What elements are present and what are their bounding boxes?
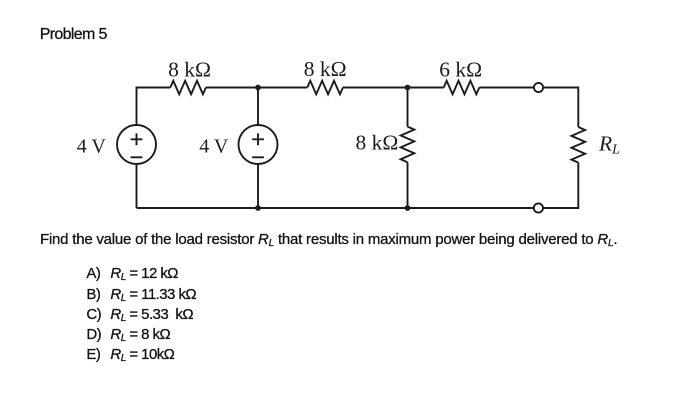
svg-text:8 kΩ: 8 kΩ — [304, 57, 347, 81]
terminal a open circle — [534, 83, 543, 92]
wire R2 to node B — [343, 87, 444, 89]
option B — [86, 286, 196, 303]
node A junction dot — [255, 85, 261, 91]
wire bottom rail — [137, 207, 534, 209]
option C — [86, 306, 193, 323]
svg-text:4 V: 4 V — [77, 135, 107, 157]
svg-text:8 kΩ: 8 kΩ — [356, 131, 399, 155]
voltage source V1 minus sign — [131, 156, 143, 158]
wire terminal a to top-right corner — [543, 88, 578, 128]
resistor R4 8k vertical — [401, 127, 415, 163]
voltage source V2 circle — [239, 125, 278, 164]
option E — [86, 346, 174, 363]
svg-text:6 kΩ: 6 kΩ — [439, 57, 482, 81]
node B junction dot — [405, 85, 411, 91]
option D — [86, 326, 170, 343]
wire resistor R4 bottom lead — [407, 162, 409, 208]
title Problem 5 — [40, 26, 107, 44]
voltage source V2 minus sign — [252, 156, 264, 158]
wire top rail — [137, 88, 171, 126]
svg-text:RL: RL — [598, 131, 620, 157]
wire resistor R4 top lead — [407, 88, 409, 127]
wire R3 to terminal a — [479, 87, 534, 89]
resistor R2 8k horizontal — [307, 81, 343, 95]
voltage source V1 plus sign — [131, 133, 143, 145]
resistor R3 6k horizontal — [444, 81, 480, 95]
node C junction dot — [255, 205, 261, 211]
question text — [40, 231, 617, 248]
voltage source V2 plus sign — [252, 133, 264, 145]
resistor R1 8k horizontal — [170, 81, 206, 95]
terminal b open circle — [534, 203, 543, 212]
resistor RL vertical — [572, 127, 586, 163]
wire left rail bottom — [136, 164, 138, 208]
svg-text:8 kΩ: 8 kΩ — [168, 57, 211, 81]
node D junction dot — [405, 205, 411, 211]
wire RL to bottom-right corner — [543, 163, 578, 208]
voltage source V1 circle — [117, 125, 156, 164]
svg-text:4 V: 4 V — [199, 135, 229, 157]
wire source V2 bottom — [257, 164, 259, 208]
option A — [86, 265, 178, 282]
wire R1 to node A — [206, 87, 307, 89]
wire source V2 top — [257, 88, 259, 126]
